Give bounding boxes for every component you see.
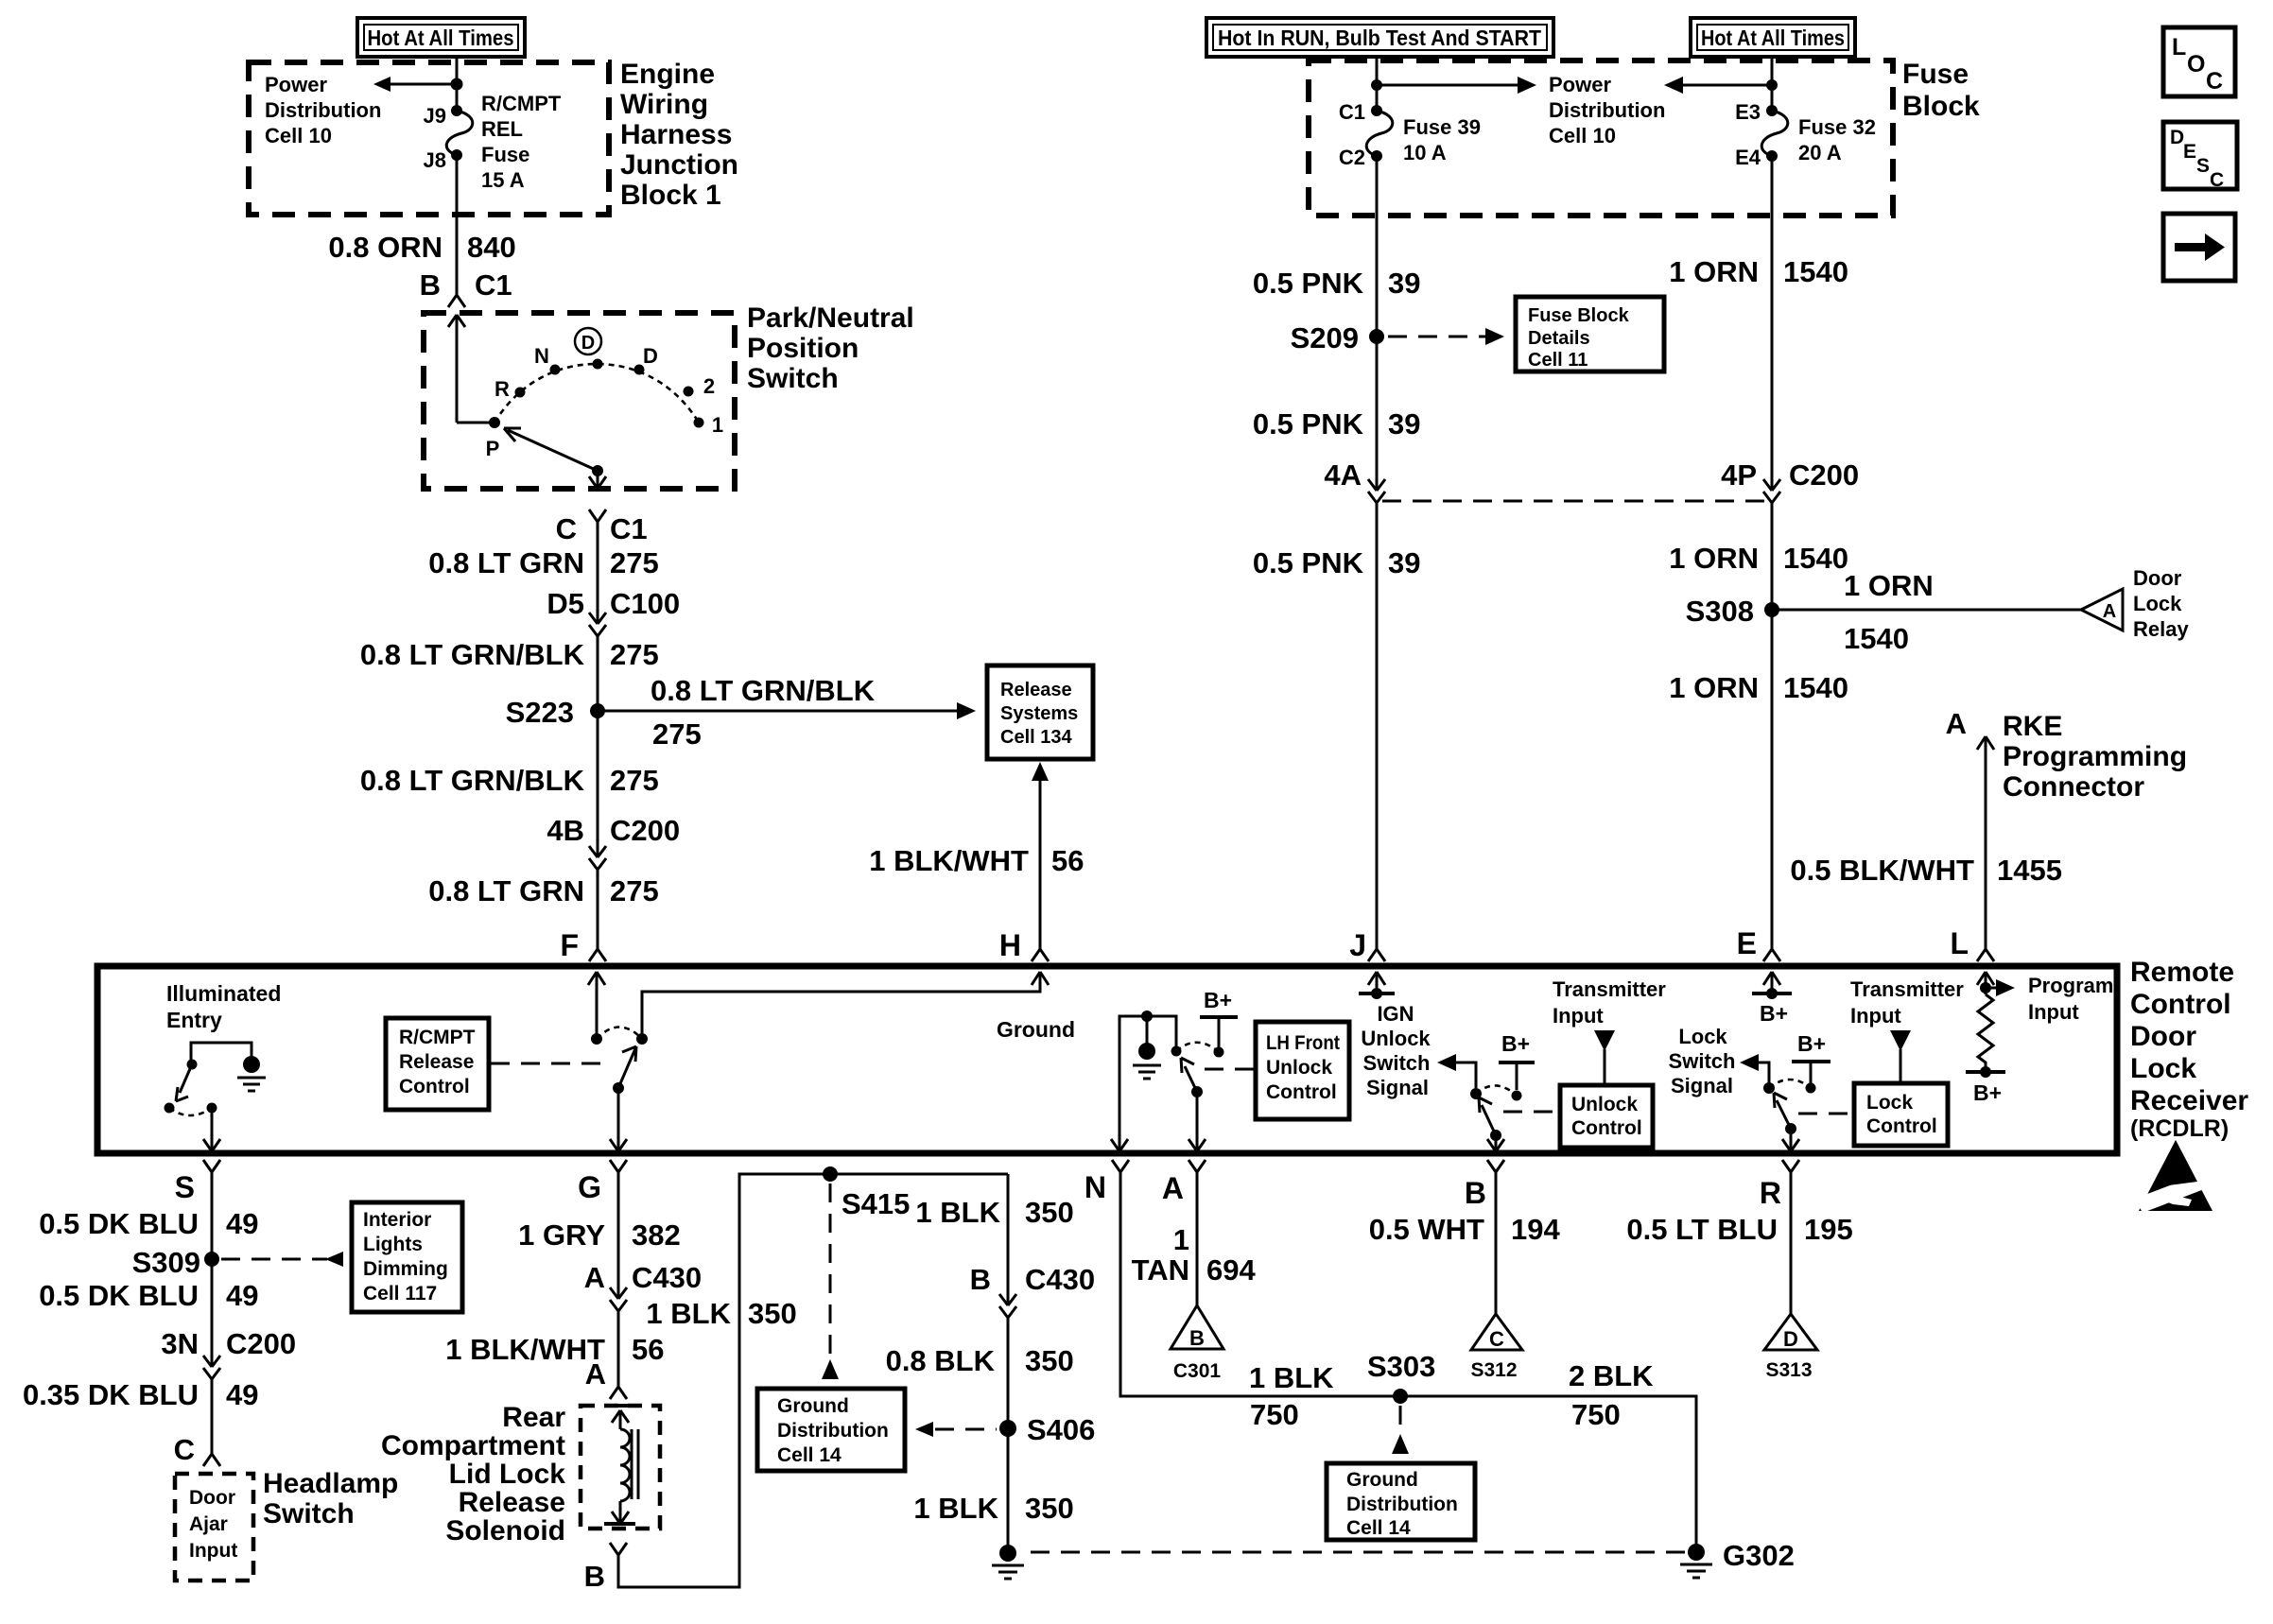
- svg-text:Distribution: Distribution: [1549, 98, 1665, 122]
- wire 0.5 PNK 39 from S209 to 4A: [1376, 337, 1379, 491]
- wire 0.5 DK BLU 49 from S309 to 3N: [211, 1259, 214, 1367]
- svg-text:C1: C1: [610, 512, 648, 545]
- control box: R/CMPT Release Control: [386, 1018, 489, 1110]
- svg-text:39: 39: [1388, 267, 1420, 300]
- pin B arrow inside switch: [448, 315, 465, 423]
- svg-text:Control: Control: [1866, 1115, 1937, 1137]
- wire 1 ORN 1540 from E4 to 4P: [1771, 156, 1774, 491]
- svg-text:C200: C200: [610, 814, 680, 847]
- fuse label: Fuse 32 20 A: [1798, 115, 1876, 164]
- svg-text:Relay: Relay: [2133, 617, 2189, 641]
- svg-text:350: 350: [1025, 1492, 1074, 1525]
- svg-text:Ground: Ground: [997, 1017, 1075, 1042]
- svg-text:Switch: Switch: [263, 1498, 355, 1529]
- svg-text:Lock: Lock: [1866, 1092, 1913, 1114]
- svg-text:S415: S415: [842, 1187, 910, 1220]
- svg-text:J8: J8: [424, 148, 446, 172]
- svg-text:840: 840: [467, 231, 516, 264]
- svg-text:N: N: [534, 344, 549, 368]
- svg-text:C430: C430: [1025, 1263, 1095, 1296]
- wire 1 BLK/WHT 56 from C430 to solenoid: [617, 1311, 620, 1387]
- svg-text:1 BLK: 1 BLK: [646, 1297, 731, 1330]
- svg-text:Ground: Ground: [1346, 1469, 1418, 1491]
- wire from solenoid B up to S415 line: [618, 1174, 1008, 1587]
- component name: Headlamp Switch: [263, 1468, 398, 1529]
- svg-text:Power: Power: [265, 73, 327, 96]
- svg-text:B: B: [584, 1560, 605, 1593]
- illuminated entry switch: [191, 1043, 252, 1062]
- svg-text:39: 39: [1388, 546, 1420, 579]
- svg-text:Program: Program: [2028, 974, 2113, 997]
- svg-text:Systems: Systems: [1000, 703, 1078, 724]
- component name: Fuse Block: [1902, 59, 1980, 122]
- unlock switch blade to pin B: [1479, 1097, 1496, 1135]
- internal ground (lamp dot + ground): [243, 1056, 260, 1073]
- antenna to Lock Control: [1890, 1030, 1911, 1051]
- pin H arrow inside RCDLR, wire to release switch contact: [642, 972, 1049, 1039]
- svg-text:1455: 1455: [1997, 854, 2062, 887]
- control box: Unlock Control: [1560, 1085, 1653, 1148]
- svg-text:4P: 4P: [1721, 458, 1757, 492]
- svg-text:C1: C1: [1339, 100, 1365, 124]
- antenna to Unlock Control: [1594, 1030, 1615, 1051]
- label: Transmitter Input (left): [1553, 977, 1666, 1028]
- svg-text:Dimming: Dimming: [363, 1258, 448, 1280]
- dashed control to Unlock Control: [1503, 1111, 1558, 1114]
- dashed reference arrow to S406: [915, 1422, 933, 1437]
- svg-text:56: 56: [632, 1333, 664, 1366]
- svg-text:S309: S309: [132, 1246, 200, 1279]
- svg-text:Headlamp: Headlamp: [263, 1468, 398, 1499]
- wiper arm pointing at P: [508, 430, 598, 471]
- svg-text:J9: J9: [424, 104, 446, 128]
- svg-text:A: A: [584, 1261, 605, 1294]
- splice S415: [823, 1166, 838, 1182]
- svg-text:L: L: [2172, 34, 2186, 60]
- wire 1 ORN 1540 from 4P to S308: [1771, 503, 1774, 610]
- svg-text:Input: Input: [1850, 1004, 1901, 1028]
- splice S308: [1764, 602, 1779, 617]
- svg-text:Door: Door: [189, 1487, 235, 1509]
- label Power Distribution Cell 10: [1549, 73, 1665, 147]
- svg-text:D: D: [643, 344, 658, 368]
- label: Door Lock Relay: [2133, 566, 2189, 641]
- contact R: [515, 388, 526, 398]
- svg-text:Cell 14: Cell 14: [777, 1444, 842, 1466]
- wire 0.5 PNK 39 from 4A to pin J: [1376, 503, 1379, 949]
- pin L internal: program input + resistor: [1977, 972, 1994, 994]
- svg-text:C: C: [174, 1433, 195, 1466]
- svg-text:Rear: Rear: [502, 1402, 565, 1433]
- contact N: [550, 365, 561, 375]
- wire 0.5 WHT 194 from B to S312: [1495, 1172, 1498, 1314]
- wire 1 GRY 382 from G to C430: [617, 1172, 620, 1299]
- svg-text:F: F: [560, 928, 579, 962]
- svg-text:4A: 4A: [1324, 458, 1362, 492]
- svg-text:Position: Position: [747, 333, 859, 364]
- svg-text:C200: C200: [226, 1327, 296, 1360]
- wire 0.8 LT GRN/BLK 275 from C100 to S223: [597, 636, 599, 711]
- solenoid coil: [620, 1429, 630, 1501]
- pin J8: [451, 149, 462, 161]
- svg-text:1 BLK: 1 BLK: [913, 1492, 998, 1525]
- internal ground dot on wire: [1141, 1011, 1153, 1022]
- svg-text:Fuse 32: Fuse 32: [1798, 115, 1876, 139]
- svg-text:0.8 LT GRN/BLK: 0.8 LT GRN/BLK: [360, 638, 585, 671]
- dashed reference to Ground Distribution (right): [1399, 1406, 1402, 1432]
- ground G302: [1688, 1544, 1705, 1561]
- svg-text:Control: Control: [2130, 989, 2231, 1020]
- svg-text:Input: Input: [1553, 1004, 1604, 1028]
- pin F arrow inside RCDLR: [588, 972, 605, 1039]
- pin E internal: B+: [1763, 972, 1780, 993]
- dashed control to LH Front Unlock Control: [1205, 1068, 1254, 1071]
- svg-text:REL: REL: [481, 117, 523, 141]
- svg-text:Switch: Switch: [1363, 1051, 1431, 1075]
- svg-text:C: C: [2210, 169, 2224, 191]
- dashed reference to Ground Distribution: [829, 1183, 832, 1358]
- svg-text:B+: B+: [1797, 1031, 1826, 1056]
- svg-text:382: 382: [632, 1218, 681, 1252]
- svg-text:S: S: [2196, 155, 2210, 177]
- svg-text:Ajar: Ajar: [189, 1513, 228, 1535]
- svg-text:Door: Door: [2130, 1021, 2196, 1052]
- svg-text:Control: Control: [1266, 1081, 1337, 1103]
- svg-text:56: 56: [1051, 844, 1084, 877]
- svg-text:1: 1: [1173, 1223, 1189, 1256]
- headlamp switch door ajar input (dashed box): [175, 1474, 253, 1581]
- label: Transmitter Input (right): [1850, 977, 1964, 1028]
- svg-text:S313: S313: [1765, 1359, 1812, 1381]
- svg-text:Unlock: Unlock: [1361, 1027, 1431, 1050]
- svg-text:Cell 11: Cell 11: [1528, 350, 1588, 371]
- svg-text:Cell 14: Cell 14: [1346, 1517, 1411, 1539]
- svg-text:Hot At All Times: Hot At All Times: [1701, 26, 1845, 50]
- connector D: S313 (triangle): [1764, 1314, 1817, 1381]
- svg-text:275: 275: [652, 717, 702, 751]
- svg-text:Release: Release: [399, 1051, 474, 1073]
- box label: Hot In RUN, Bulb Test And START: [1206, 18, 1553, 57]
- contact P: [489, 417, 500, 428]
- svg-text:2: 2: [703, 374, 715, 398]
- svg-text:1 ORN: 1 ORN: [1844, 569, 1934, 602]
- detail box: Interior Lights Dimming Cell 117: [352, 1202, 462, 1312]
- svg-text:R/CMPT: R/CMPT: [399, 1027, 476, 1048]
- wire 0.8 LT GRN/BLK 275 from S223 to C200: [597, 711, 599, 857]
- release switch contact dots: [591, 1033, 602, 1045]
- wire to contact P: [457, 422, 495, 424]
- svg-text:E: E: [2183, 141, 2196, 163]
- svg-text:Door: Door: [2133, 566, 2182, 590]
- svg-text:2 BLK: 2 BLK: [1569, 1359, 1654, 1392]
- wire 0.8 LT GRN 275 from C1 to C100: [597, 522, 599, 624]
- throw arc to B+: [1476, 1085, 1517, 1096]
- lock switch blade to pin R: [1774, 1093, 1791, 1129]
- svg-text:Cell 117: Cell 117: [363, 1283, 437, 1304]
- svg-text:Transmitter: Transmitter: [1850, 977, 1964, 1001]
- dashed reference arrow to Fuse Block Details: [1388, 336, 1497, 338]
- svg-text:D: D: [581, 333, 595, 354]
- RKE programming connector pin A (arrow up): [1977, 736, 1994, 949]
- wire from blade to pin G: [610, 1088, 627, 1151]
- svg-text:Block 1: Block 1: [620, 180, 721, 211]
- svg-text:Solenoid: Solenoid: [445, 1515, 565, 1546]
- svg-text:B+: B+: [1760, 1001, 1788, 1026]
- solenoid internal arrow out: [612, 1501, 629, 1524]
- svg-text:E: E: [1737, 926, 1757, 960]
- throw arc to B+: [1176, 1043, 1219, 1052]
- dashed ground link to G302: [1031, 1551, 1689, 1554]
- svg-text:C301: C301: [1173, 1360, 1222, 1382]
- svg-text:Unlock: Unlock: [1571, 1094, 1638, 1115]
- svg-text:Cell 134: Cell 134: [1000, 727, 1072, 748]
- svg-text:1 BLK: 1 BLK: [1249, 1361, 1334, 1394]
- connector A: Door Lock Relay (triangle): [2081, 589, 2123, 631]
- svg-text:Receiver: Receiver: [2130, 1085, 2248, 1116]
- svg-text:0.5 PNK: 0.5 PNK: [1253, 407, 1364, 441]
- svg-text:Lock: Lock: [2133, 592, 2182, 615]
- pin E4: [1766, 150, 1778, 162]
- svg-text:A: A: [1946, 707, 1967, 740]
- svg-text:R: R: [1760, 1176, 1781, 1210]
- svg-text:G302: G302: [1723, 1539, 1795, 1572]
- svg-text:350: 350: [1025, 1344, 1074, 1377]
- detail box: Fuse Block Details Cell 11: [1516, 297, 1664, 371]
- label: Lock Switch Signal: [1669, 1025, 1736, 1097]
- svg-text:275: 275: [610, 638, 659, 671]
- svg-text:Control: Control: [399, 1076, 470, 1097]
- svg-text:A: A: [585, 1357, 606, 1391]
- svg-text:Lights: Lights: [363, 1234, 423, 1255]
- box label: Hot At All Times (left): [357, 18, 525, 57]
- fuse 39 10A (squiggle): [1366, 111, 1393, 156]
- svg-text:D: D: [2170, 127, 2184, 148]
- svg-text:Ground: Ground: [777, 1395, 849, 1417]
- svg-text:G: G: [578, 1170, 601, 1204]
- svg-text:Park/Neutral: Park/Neutral: [747, 302, 914, 334]
- svg-text:Wiring: Wiring: [620, 89, 708, 120]
- svg-text:0.8 LT GRN: 0.8 LT GRN: [428, 874, 584, 907]
- svg-text:LH Front: LH Front: [1266, 1032, 1340, 1054]
- svg-text:350: 350: [748, 1297, 797, 1330]
- splice S406: [999, 1420, 1016, 1437]
- svg-text:49: 49: [226, 1279, 258, 1312]
- svg-text:TAN: TAN: [1132, 1253, 1189, 1287]
- wire 0.5 PNK 39 from C2 to S209: [1376, 156, 1379, 337]
- svg-text:694: 694: [1206, 1253, 1256, 1287]
- svg-text:49: 49: [226, 1207, 258, 1240]
- component name: Engine Wiring Harness Junction Block 1: [620, 59, 738, 211]
- svg-text:D: D: [1783, 1327, 1798, 1351]
- svg-text:0.5 PNK: 0.5 PNK: [1253, 546, 1364, 579]
- svg-text:E3: E3: [1735, 100, 1761, 124]
- svg-text:Signal: Signal: [1671, 1074, 1733, 1097]
- wire 1 BLK 750 from N to S303: [1120, 1172, 1696, 1545]
- contact 2: [684, 387, 694, 397]
- svg-text:Entry: Entry: [166, 1008, 222, 1032]
- svg-text:Illuminated: Illuminated: [166, 981, 281, 1006]
- svg-text:B: B: [1465, 1176, 1486, 1210]
- svg-text:N: N: [1084, 1170, 1106, 1204]
- svg-text:Input: Input: [189, 1540, 237, 1562]
- svg-text:C: C: [2206, 68, 2223, 95]
- contact 1: [694, 418, 704, 428]
- svg-text:B+: B+: [1973, 1080, 2002, 1105]
- svg-text:Engine: Engine: [620, 59, 715, 90]
- arrow box: [2163, 214, 2235, 281]
- svg-text:S223: S223: [506, 696, 574, 729]
- splice S309: [204, 1252, 219, 1267]
- pin C2: [1371, 150, 1382, 162]
- unlock output switch contact: [1171, 1046, 1182, 1057]
- pin E3: [1766, 105, 1778, 116]
- wire 0.5 LT BLU 195 from R to S313: [1790, 1172, 1793, 1314]
- svg-text:0.35 DK BLU: 0.35 DK BLU: [23, 1378, 199, 1411]
- svg-text:S312: S312: [1470, 1359, 1517, 1381]
- svg-text:195: 195: [1804, 1213, 1853, 1246]
- rotary arc (dashed): [495, 364, 699, 423]
- dashed control to Lock Control: [1798, 1113, 1852, 1115]
- svg-text:Block: Block: [1902, 91, 1980, 122]
- svg-text:C430: C430: [632, 1261, 702, 1294]
- wire to pin S: [203, 1108, 220, 1151]
- LOC box (top right): [2163, 27, 2235, 96]
- svg-text:Junction: Junction: [620, 149, 738, 181]
- svg-text:Programming: Programming: [2003, 741, 2187, 772]
- svg-text:0.5 DK BLU: 0.5 DK BLU: [39, 1279, 199, 1312]
- unlock switch signal arrow: [1449, 1063, 1476, 1088]
- svg-text:J: J: [1349, 928, 1366, 962]
- svg-text:1540: 1540: [1783, 255, 1848, 288]
- pin J internal: IGN unlock switch signal: [1368, 972, 1385, 993]
- component name: Remote Control Door Lock Receiver (RCDLR): [2130, 957, 2248, 1142]
- svg-text:S209: S209: [1291, 321, 1359, 354]
- svg-text:1 ORN: 1 ORN: [1669, 542, 1759, 575]
- RCDLR box: Remote Control Door Lock Receiver: [97, 966, 2117, 1153]
- wire 1 TAN 694 from A to C301: [1196, 1172, 1199, 1305]
- svg-text:4B: 4B: [547, 814, 584, 847]
- svg-text:1 BLK/WHT: 1 BLK/WHT: [869, 844, 1029, 877]
- svg-text:C100: C100: [610, 587, 680, 620]
- svg-text:1 BLK: 1 BLK: [915, 1196, 1000, 1229]
- svg-text:Lock: Lock: [2130, 1053, 2196, 1084]
- splice S209: [1369, 329, 1384, 344]
- detail box: Ground Distribution Cell 14 (right): [1327, 1463, 1475, 1540]
- wire 0.8 ORN 840 from J8 to connector C1: [456, 155, 459, 295]
- svg-text:C200: C200: [1789, 458, 1859, 492]
- svg-text:275: 275: [610, 764, 659, 797]
- ESD sensitivity symbol: [2135, 1140, 2212, 1213]
- svg-text:H: H: [999, 928, 1021, 962]
- rear compartment lid lock release solenoid (dashed box): [581, 1406, 660, 1529]
- node junction dot: [451, 78, 463, 91]
- svg-text:Fuse: Fuse: [1902, 59, 1969, 90]
- svg-text:Fuse: Fuse: [481, 143, 529, 166]
- arrow from Hot At All Times wire (left-pointing): [1672, 84, 1772, 87]
- svg-text:1 BLK/WHT: 1 BLK/WHT: [445, 1333, 605, 1366]
- svg-text:Distribution: Distribution: [1346, 1494, 1458, 1515]
- B+ stub: [1200, 988, 1238, 1058]
- fuse R/CMPT REL 15A (squiggle): [446, 111, 473, 155]
- svg-text:750: 750: [1571, 1398, 1621, 1431]
- contact D (top, circled D indicator): [593, 359, 603, 370]
- svg-text:0.5 DK BLU: 0.5 DK BLU: [39, 1207, 199, 1240]
- wire arrow to Power Distribution: [381, 83, 457, 86]
- svg-text:1 ORN: 1 ORN: [1669, 671, 1759, 704]
- svg-text:P: P: [486, 437, 500, 460]
- wire 1 BLK 350 from S415 line down to C430: [1007, 1174, 1010, 1305]
- wire from Hot At All Times down to J9: [456, 57, 459, 111]
- svg-text:D5: D5: [547, 587, 584, 620]
- svg-text:0.8 BLK: 0.8 BLK: [886, 1344, 996, 1377]
- svg-text:0.8 LT GRN/BLK: 0.8 LT GRN/BLK: [651, 674, 876, 707]
- svg-text:S: S: [175, 1170, 195, 1204]
- svg-text:Harness: Harness: [620, 119, 732, 150]
- release switch blade: [618, 1046, 636, 1088]
- throw arc (dashed): [169, 1108, 212, 1115]
- svg-text:Switch: Switch: [747, 363, 839, 394]
- wire 0.8 LT GRN/BLK 275 branch to Release Systems: [598, 710, 968, 713]
- svg-text:Switch: Switch: [1669, 1049, 1736, 1073]
- svg-text:Remote: Remote: [2130, 957, 2234, 988]
- svg-text:B: B: [970, 1263, 991, 1296]
- dashed reference arrow from Interior Lights Dimming: [221, 1258, 327, 1261]
- svg-text:Lid Lock: Lid Lock: [449, 1459, 566, 1490]
- svg-text:R/CMPT: R/CMPT: [481, 92, 562, 115]
- svg-text:Interior: Interior: [363, 1209, 431, 1231]
- svg-text:0.8 LT GRN: 0.8 LT GRN: [428, 546, 584, 579]
- svg-text:C: C: [556, 512, 577, 545]
- svg-text:750: 750: [1250, 1398, 1299, 1431]
- svg-text:1540: 1540: [1783, 671, 1848, 704]
- svg-text:Distribution: Distribution: [777, 1420, 889, 1442]
- svg-text:Release: Release: [1000, 680, 1072, 700]
- ground at S406: [999, 1545, 1016, 1562]
- svg-text:0.8 ORN: 0.8 ORN: [328, 231, 442, 264]
- svg-text:IGN: IGN: [1377, 1002, 1414, 1026]
- svg-text:10 A: 10 A: [1403, 141, 1447, 164]
- svg-text:Fuse Block: Fuse Block: [1528, 305, 1630, 326]
- wire from Hot At All Times down to fuse 32: [1771, 57, 1774, 111]
- dashed control line from R/CMPT Release Control: [491, 1063, 607, 1065]
- DESC box: [2163, 122, 2237, 191]
- label Power Distribution Cell 10: [265, 73, 381, 147]
- svg-text:1540: 1540: [1783, 542, 1848, 575]
- pin C1: [1371, 105, 1382, 116]
- svg-text:350: 350: [1025, 1196, 1074, 1229]
- connector C: S312 (triangle): [1470, 1314, 1522, 1381]
- svg-text:Signal: Signal: [1366, 1076, 1429, 1099]
- component name: Park/Neutral Position Switch: [747, 302, 914, 394]
- control box: Lock Control: [1854, 1083, 1948, 1146]
- wire 1 ORN 1540 from S308 to pin E: [1771, 610, 1774, 949]
- B+ stub: [1499, 1031, 1535, 1101]
- resistor: [1978, 994, 1993, 1067]
- svg-text:Connector: Connector: [2003, 771, 2144, 803]
- svg-text:Transmitter: Transmitter: [1553, 977, 1666, 1001]
- svg-text:B: B: [420, 268, 441, 302]
- svg-text:0.5 LT BLU: 0.5 LT BLU: [1626, 1213, 1778, 1246]
- wire 0.35 DK BLU 49 to headlamp switch: [211, 1379, 214, 1454]
- solenoid internal arrow in: [612, 1410, 629, 1429]
- fuse value label R/CMPT REL Fuse 15 A: [481, 92, 562, 192]
- fuse label: Fuse 39 10 A: [1403, 115, 1481, 164]
- svg-text:B: B: [1189, 1326, 1205, 1350]
- svg-text:1 ORN: 1 ORN: [1669, 255, 1759, 288]
- release switch throw (dashed arc): [597, 1028, 642, 1040]
- svg-text:B+: B+: [1501, 1031, 1530, 1056]
- lock switch signal arrow: [1751, 1063, 1769, 1083]
